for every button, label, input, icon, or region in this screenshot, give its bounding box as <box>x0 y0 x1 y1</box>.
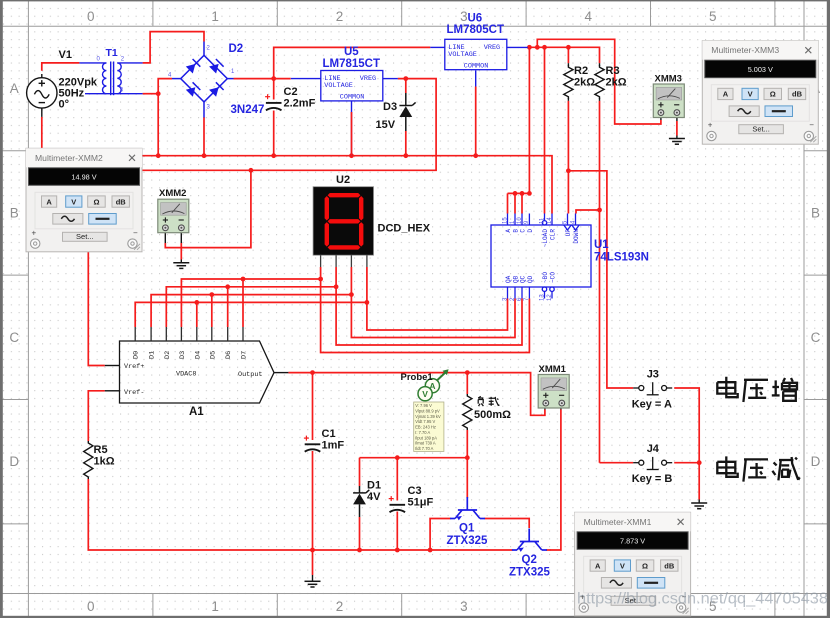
XMM2 icon body <box>158 199 189 233</box>
svg-text:1: 1 <box>211 9 219 24</box>
multimeter window XMM3 <box>702 41 818 145</box>
junction base bus at load/Q1 <box>465 455 470 460</box>
svg-text:13: 13 <box>539 294 545 301</box>
wire D6 pin riser <box>227 287 229 327</box>
junction bus bit 1 at display vertical <box>349 292 354 297</box>
svg-text:B: B <box>513 229 520 233</box>
load body <box>463 394 472 430</box>
probe readout box <box>414 402 444 451</box>
svg-text:D6: D6 <box>225 351 233 359</box>
wire A-D tie <box>528 47 530 193</box>
R5 body <box>84 441 93 479</box>
ground symbol J <box>691 503 707 509</box>
wire V1 top to T1 primary <box>42 63 80 71</box>
label dian 2 (big) (drawn glyph) <box>717 456 737 476</box>
svg-text:5.003 V: 5.003 V <box>748 65 773 74</box>
svg-text:LM7815CT: LM7815CT <box>323 58 381 70</box>
wire XMM1 minus down to Q2 <box>560 404 562 410</box>
svg-text:2kΩ: 2kΩ <box>574 77 595 89</box>
svg-text:A: A <box>46 197 52 206</box>
junction C2 / U6 feed node <box>271 76 276 81</box>
junction common rail at D3 <box>403 153 408 158</box>
svg-text:Ildt 7.70 A: Ildt 7.70 A <box>415 446 433 451</box>
svg-text:~CO: ~CO <box>550 272 557 283</box>
wire DOWN net to J4 <box>600 462 634 464</box>
svg-text:~BO: ~BO <box>542 272 549 283</box>
wire Vref+ <box>88 251 105 366</box>
R2 body <box>564 65 573 99</box>
svg-text:Set...: Set... <box>76 232 94 241</box>
wire D5 pin riser <box>211 295 213 327</box>
svg-text:UP: UP <box>565 229 572 237</box>
svg-text:VDAC8: VDAC8 <box>176 371 196 379</box>
svg-text:QA: QA <box>505 275 512 283</box>
junction bus bit 3 at display vertical <box>318 277 323 282</box>
wire Q1 base from bus <box>466 458 468 498</box>
DAC A1 VDAC8 <box>120 341 275 403</box>
junction common rail at U5 COMMON <box>349 153 354 158</box>
junction R3 net branch <box>597 208 602 213</box>
svg-text:C: C <box>520 229 527 233</box>
svg-text:D5: D5 <box>209 351 217 359</box>
svg-text:V: V <box>71 197 76 206</box>
svg-text:Ω: Ω <box>770 90 776 99</box>
voltage regulator U6 LM7805CT <box>445 39 507 69</box>
svg-text:14: 14 <box>547 217 553 224</box>
junction bus bit 1 at D5 <box>209 292 214 297</box>
svg-text:C: C <box>811 330 821 345</box>
junction R2 net branch <box>566 168 571 173</box>
wire display pin 1 to counter Q <box>321 267 530 353</box>
svg-text:Key = A: Key = A <box>632 399 672 411</box>
junction T1 secondary bottom <box>156 91 161 96</box>
junction J4 right <box>697 460 702 465</box>
svg-text:3N247: 3N247 <box>231 104 265 116</box>
svg-text:C2: C2 <box>284 86 298 98</box>
wire display pin 4 to counter Q <box>367 267 508 330</box>
svg-text:R5: R5 <box>94 444 108 456</box>
svg-text:QB: QB <box>513 275 520 283</box>
svg-text:U1: U1 <box>594 239 609 251</box>
svg-text:Ω: Ω <box>642 561 648 570</box>
svg-text:XMM2: XMM2 <box>159 188 186 199</box>
svg-text:Ω: Ω <box>93 197 99 206</box>
transistor Q2 <box>512 529 547 551</box>
svg-text:D7: D7 <box>241 351 249 359</box>
junction D3 top <box>403 76 408 81</box>
wire data bus bit 2 <box>166 287 336 327</box>
svg-text:XMM3: XMM3 <box>655 74 682 85</box>
transformer T1 <box>79 62 142 96</box>
multimeter window XMM2 <box>26 148 142 252</box>
svg-text:R3: R3 <box>606 65 620 77</box>
bridge diode BL <box>186 87 196 97</box>
wire display pin 2 to counter Q <box>336 267 522 345</box>
wire XMM2 minus to ground <box>180 230 182 243</box>
junction bus bit 0 at D4 <box>194 300 199 305</box>
wire display pin 3 to counter Q <box>351 267 515 338</box>
svg-text:dB: dB <box>664 561 675 570</box>
A1 pin names <box>124 351 262 397</box>
svg-text:A: A <box>10 81 19 96</box>
label ya (big) (drawn glyph) <box>743 380 768 402</box>
junction common rail at U6 COMMON <box>473 153 478 158</box>
svg-text:Vlput 88.9 pV: Vlput 88.9 pV <box>415 409 440 414</box>
svg-text:VOLTAGE: VOLTAGE <box>448 51 477 59</box>
ground symbol XMM2 <box>173 263 189 269</box>
U1 pin names <box>505 229 580 283</box>
svg-text:7.873 V: 7.873 V <box>620 537 645 546</box>
svg-text:Ilput 189 pA: Ilput 189 pA <box>415 435 437 440</box>
bridge diode BR <box>209 87 219 97</box>
label fu (load) (drawn glyph) <box>478 396 483 406</box>
wire data bus bit 0 <box>135 302 367 327</box>
svg-text:D: D <box>527 229 534 233</box>
label zai (load) (drawn glyph) <box>489 397 500 406</box>
svg-text:74LS193N: 74LS193N <box>594 252 649 264</box>
svg-text:Output: Output <box>238 371 262 379</box>
svg-text:0: 0 <box>87 599 95 614</box>
wire D4 pin riser <box>196 302 198 327</box>
svg-text:1: 1 <box>211 599 219 614</box>
svg-text:−: − <box>133 228 138 237</box>
svg-text:C: C <box>9 330 19 345</box>
svg-text:Key = B: Key = B <box>632 473 673 485</box>
junction 5V rail R2 top <box>566 45 571 50</box>
svg-text:I: 7.70 A: I: 7.70 A <box>415 430 430 435</box>
wire J4 right <box>674 462 699 464</box>
C3 plates <box>390 505 406 512</box>
svg-text:11: 11 <box>539 217 545 224</box>
switch J3 <box>633 382 672 395</box>
junction bus bit 2 at display vertical <box>334 284 339 289</box>
junction bus bit 2 at D6 <box>225 284 230 289</box>
junction rail at C3 <box>395 548 400 553</box>
junction common rail at C2 <box>271 153 276 158</box>
svg-text:C1: C1 <box>322 428 336 440</box>
wire U6 COMMON down <box>475 71 477 156</box>
junction common rail at T1 riser <box>156 153 161 158</box>
label jian (big) (drawn glyph) <box>772 457 799 480</box>
svg-text:4V: 4V <box>367 491 381 503</box>
bridge rectifier D2 <box>172 42 234 118</box>
svg-text:D: D <box>9 454 19 469</box>
svg-text:2.2mF: 2.2mF <box>284 98 316 110</box>
probe Probe1 <box>418 369 449 401</box>
svg-text:Vldt 7.95 V: Vldt 7.95 V <box>415 419 435 424</box>
junction rail at D1 <box>357 548 362 553</box>
svg-text:DCD_HEX: DCD_HEX <box>378 223 431 235</box>
resistor R3 <box>599 63 601 66</box>
svg-text:Q1: Q1 <box>459 523 475 535</box>
wire unregulated feed to U6 LINE <box>274 47 431 78</box>
svg-text:2: 2 <box>336 9 344 24</box>
svg-text:Multimeter-XMM1: Multimeter-XMM1 <box>584 517 652 527</box>
svg-text:D2: D2 <box>164 351 172 359</box>
common rail (0V) <box>140 156 552 214</box>
svg-text:Vref-: Vref- <box>124 389 144 397</box>
wire C2 leads <box>273 79 275 100</box>
svg-text:2: 2 <box>336 599 344 614</box>
A1 top pin stubs <box>135 327 243 341</box>
svg-text:3: 3 <box>460 599 468 614</box>
svg-text:VREG: VREG <box>360 75 376 83</box>
wire Q1 collector to Q2 <box>485 519 530 529</box>
zener diode D1 <box>353 494 366 505</box>
wire U5 COMMON down <box>351 101 353 156</box>
bridge diode TL <box>186 64 196 74</box>
base bus Q1 (D1/C3/load bottom) <box>360 457 468 459</box>
svg-text:−: − <box>809 121 814 130</box>
wire C3 leads <box>396 458 398 501</box>
wire Q2 collector side <box>546 549 551 551</box>
zener diode D3 <box>399 106 412 117</box>
svg-text:EB: 243 Hz: EB: 243 Hz <box>415 425 436 430</box>
wire 5V to XMM3 plus <box>537 39 661 124</box>
wire node T1-bridge pin4 riser <box>158 79 172 156</box>
svg-text:VOLTAGE: VOLTAGE <box>324 82 353 90</box>
svg-text:V1: V1 <box>59 49 72 61</box>
svg-text:51μF: 51μF <box>408 497 434 509</box>
wire D7 pin riser <box>242 279 244 327</box>
seven segment display U2 <box>313 187 373 256</box>
svg-text:2kΩ: 2kΩ <box>606 77 627 89</box>
svg-text:~LOAD: ~LOAD <box>542 229 549 248</box>
svg-text:QC: QC <box>520 275 527 283</box>
wire D3 leads <box>405 79 407 93</box>
+5V rail from U6 VREG <box>528 47 600 63</box>
wire ~LOAD pull-up <box>544 47 546 213</box>
wire data bus bit 1 <box>151 295 351 327</box>
svg-text:1kΩ: 1kΩ <box>94 456 115 468</box>
svg-text:5: 5 <box>709 9 717 24</box>
svg-text:https://blog.csdn.net/qq_44705: https://blog.csdn.net/qq_44705438 <box>577 591 828 608</box>
wire bridge pin1 to +rail <box>234 78 291 80</box>
svg-text:Multimeter-XMM2: Multimeter-XMM2 <box>35 153 103 163</box>
svg-text:12: 12 <box>547 294 553 301</box>
wire bridge pin3 down to common rail <box>203 117 205 156</box>
transistor Q1 <box>450 497 485 519</box>
svg-text:U2: U2 <box>336 174 350 186</box>
wire R2 top lead <box>567 47 569 63</box>
svg-text:A: A <box>595 561 601 570</box>
C2 plates <box>266 103 282 110</box>
svg-text:B: B <box>10 205 19 220</box>
svg-text:0: 0 <box>87 9 95 24</box>
junction bus bit 0 at display vertical <box>365 300 370 305</box>
junction 5V rail LOAD riser <box>542 45 547 50</box>
svg-text:D2: D2 <box>229 43 244 55</box>
junction rail at Q1 emitter <box>428 548 433 553</box>
label ya 2 (big) (drawn glyph) <box>743 459 768 481</box>
junction output at C1 <box>310 370 315 375</box>
svg-text:Multimeter-XMM3: Multimeter-XMM3 <box>711 45 779 55</box>
junction common rail at bridge pin3 <box>202 153 207 158</box>
junction XMM2 measure point <box>249 168 254 173</box>
svg-text:U5: U5 <box>344 46 359 58</box>
wire J3 right to ground riser <box>674 388 699 500</box>
svg-text:CLR: CLR <box>550 229 557 240</box>
svg-text:dB: dB <box>792 90 803 99</box>
wire R3 bottom / DOWN net <box>599 101 601 463</box>
junction base bus at C3 <box>395 455 400 460</box>
svg-text:Ilmat 739 A: Ilmat 739 A <box>415 441 436 446</box>
wire D1 leads <box>359 458 361 486</box>
ground symbol XMM3 <box>669 139 685 145</box>
A1 output stub <box>274 372 288 374</box>
svg-text:DOWN: DOWN <box>573 229 580 244</box>
junction tie D <box>527 191 532 196</box>
label dian (big) (drawn glyph) <box>717 377 737 397</box>
wire R2 bottom / UP net <box>567 101 569 214</box>
svg-text:D4: D4 <box>194 351 202 359</box>
junction tie C <box>520 191 525 196</box>
svg-text:500mΩ: 500mΩ <box>474 409 511 421</box>
AC source V1 <box>27 74 57 117</box>
svg-text:A1: A1 <box>189 406 204 418</box>
wire rail ground stub <box>312 550 314 575</box>
svg-text:15V: 15V <box>376 119 396 131</box>
svg-text:QD: QD <box>527 275 534 283</box>
svg-text:Set...: Set... <box>752 125 770 134</box>
svg-text:Q2: Q2 <box>522 554 537 566</box>
junction tie B <box>513 191 518 196</box>
svg-text:LM7805CT: LM7805CT <box>447 24 505 36</box>
svg-text:10: 10 <box>517 217 523 224</box>
svg-text:15: 15 <box>502 217 508 224</box>
wire C1 leads <box>312 373 314 440</box>
XMM1 icon body <box>538 375 569 409</box>
svg-text:D: D <box>811 454 821 469</box>
svg-text:0°: 0° <box>59 99 70 111</box>
svg-text:D3: D3 <box>383 101 397 113</box>
switch J4 <box>633 457 672 470</box>
wire DOWN net spur <box>576 210 600 214</box>
svg-text:+: + <box>32 228 37 237</box>
svg-text:ZTX325: ZTX325 <box>447 535 489 547</box>
wire T1 secondary bottom node <box>143 93 159 95</box>
svg-text:14.98 V: 14.98 V <box>71 173 96 182</box>
junction 5V rail B riser <box>535 45 540 50</box>
wire T1 secondary top to bridge pin2 <box>143 32 204 63</box>
svg-text:V: V <box>748 90 753 99</box>
svg-text:B: B <box>811 205 820 220</box>
U2 display pins <box>321 255 367 267</box>
svg-text:1mF: 1mF <box>322 440 345 452</box>
wire U5 VREG output 15V net <box>140 79 436 171</box>
wire Vref- to R5 <box>88 391 105 441</box>
svg-text:Vjmat 1.39 kV: Vjmat 1.39 kV <box>415 414 441 419</box>
junction 5V rail A-D tie riser <box>527 45 532 50</box>
svg-text:J3: J3 <box>647 369 659 381</box>
svg-text:D1: D1 <box>367 480 381 492</box>
svg-text:COMMON: COMMON <box>340 94 364 102</box>
svg-text:ZTX325: ZTX325 <box>509 567 551 579</box>
svg-text:Vref+: Vref+ <box>124 363 144 371</box>
svg-text:A: A <box>505 229 512 233</box>
wire data bus bit 3 <box>181 279 320 327</box>
label zeng (big) (drawn glyph) <box>772 378 797 401</box>
svg-text:V: 7.96 V: V: 7.96 V <box>415 403 432 408</box>
svg-text:D0: D0 <box>133 351 141 359</box>
resistor R2 <box>567 63 569 66</box>
junction output at load <box>465 370 470 375</box>
multimeter window XMM1 <box>575 512 691 616</box>
svg-text:A: A <box>723 90 729 99</box>
wire UP net to J3 <box>568 171 633 388</box>
wire A1 output net <box>288 373 545 416</box>
svg-text:XMM1: XMM1 <box>539 364 567 375</box>
svg-text:4: 4 <box>585 9 593 24</box>
svg-text:+: + <box>708 121 713 130</box>
U1 pin numbers <box>502 217 576 301</box>
junction bus bit 3 at D7 <box>241 277 246 282</box>
wire V1 bottom (into panel area) <box>41 117 43 150</box>
C1 plates <box>305 444 321 451</box>
svg-text:R2: R2 <box>574 65 588 77</box>
wire Q1 emitter to rail <box>430 519 451 551</box>
svg-text:D1: D1 <box>149 351 157 359</box>
svg-text:T1: T1 <box>106 47 118 59</box>
svg-text:C3: C3 <box>408 485 422 497</box>
svg-text:V: V <box>422 389 428 399</box>
svg-text:COMMON: COMMON <box>464 62 488 70</box>
svg-text:Probe1: Probe1 <box>401 372 434 383</box>
svg-text:J4: J4 <box>647 443 660 455</box>
wire load leads <box>466 373 468 394</box>
bridge diode TR <box>209 64 219 74</box>
svg-text:V: V <box>620 561 625 570</box>
svg-text:dB: dB <box>116 197 127 206</box>
counter U1 74LS193N <box>491 225 591 287</box>
voltage regulator U5 LM7815CT <box>321 71 383 101</box>
R3 body <box>595 65 604 99</box>
wire XMM2 plus probe <box>165 170 251 247</box>
wire XMM3 minus to ground <box>676 115 678 122</box>
ground symbol rail <box>305 581 321 587</box>
XMM3 icon body <box>653 84 684 118</box>
bottom ground rail <box>88 479 512 550</box>
svg-text:U6: U6 <box>468 13 483 25</box>
svg-text:VREG: VREG <box>484 44 500 52</box>
junction rail at C1/gnd <box>310 548 315 553</box>
svg-text:D3: D3 <box>179 351 187 359</box>
